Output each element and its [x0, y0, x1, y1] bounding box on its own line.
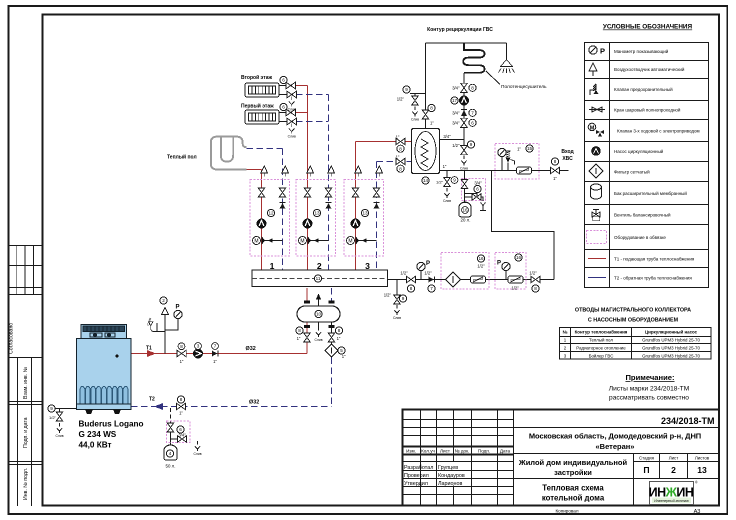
svg-text:3/4": 3/4": [178, 433, 186, 438]
svg-text:1": 1": [517, 147, 521, 152]
svg-text:4: 4: [169, 451, 172, 456]
svg-text:1/2": 1/2": [436, 180, 444, 185]
svg-text:1": 1": [396, 155, 400, 160]
svg-text:6: 6: [476, 187, 479, 192]
svg-text:Подп. и дата: Подп. и дата: [23, 417, 29, 448]
svg-text:Московская область, Домодедовс: Московская область, Домодедовский р-н, Д…: [529, 432, 701, 441]
svg-text:G 234 WS: G 234 WS: [79, 430, 117, 439]
svg-text:№ док.: № док.: [455, 448, 470, 453]
svg-text:9: 9: [405, 87, 408, 92]
svg-text:13: 13: [697, 465, 707, 475]
svg-text:1/2": 1/2": [424, 271, 432, 276]
svg-text:Вентиль балансировочный: Вентиль балансировочный: [614, 212, 671, 218]
svg-text:Дата: Дата: [500, 448, 511, 453]
svg-text:Второй этаж: Второй этаж: [241, 74, 272, 81]
svg-text:8: 8: [399, 146, 402, 151]
svg-text:Воздухоотводчик автоматический: Воздухоотводчик автоматический: [614, 66, 685, 72]
svg-text:P: P: [426, 261, 430, 267]
svg-text:6: 6: [282, 105, 285, 110]
svg-text:9: 9: [470, 142, 473, 147]
svg-text:Согласовано: Согласовано: [9, 323, 15, 354]
svg-text:9: 9: [453, 178, 456, 183]
svg-text:Примечание:: Примечание:: [625, 373, 674, 382]
svg-text:1": 1": [553, 176, 557, 181]
svg-text:7: 7: [471, 111, 474, 116]
svg-text:Клапан 3-х ходовой с электропр: Клапан 3-х ходовой с электроприводом: [617, 128, 700, 134]
svg-text:2: 2: [162, 298, 165, 303]
svg-text:Buderus Logano: Buderus Logano: [79, 420, 144, 429]
svg-text:П: П: [643, 465, 649, 475]
svg-text:Циркуляционный насос: Циркуляционный насос: [645, 330, 698, 335]
svg-text:3/4": 3/4": [443, 134, 451, 139]
svg-text:Оборудование в обвязке: Оборудование в обвязке: [614, 235, 666, 240]
svg-text:Вход: Вход: [561, 149, 574, 155]
svg-text:Проверил: Проверил: [404, 473, 429, 479]
svg-text:13: 13: [314, 211, 320, 216]
svg-text:2: 2: [317, 261, 322, 271]
svg-text:Подп.: Подп.: [478, 448, 490, 453]
svg-text:1/2": 1/2": [477, 264, 485, 269]
svg-text:6: 6: [282, 78, 285, 83]
svg-text:10: 10: [316, 312, 322, 317]
svg-text:13: 13: [362, 211, 368, 216]
svg-text:Кран шаровый полнопроходной: Кран шаровый полнопроходной: [614, 107, 681, 113]
svg-text:8: 8: [471, 86, 474, 91]
svg-text:Полотенцесушитель: Полотенцесушитель: [501, 84, 547, 90]
svg-text:5: 5: [340, 348, 343, 353]
svg-text:Теплый пол: Теплый пол: [589, 338, 613, 343]
svg-text:1/2": 1/2": [452, 143, 460, 148]
svg-text:Утвердил: Утвердил: [404, 481, 428, 487]
svg-text:Листы марки 234/2018-ТМ: Листы марки 234/2018-ТМ: [609, 386, 689, 393]
svg-text:3/4": 3/4": [452, 111, 460, 116]
svg-text:6: 6: [471, 121, 474, 126]
svg-text:рассматривать совместно: рассматривать совместно: [609, 395, 689, 402]
svg-text:1: 1: [270, 261, 275, 271]
svg-text:Листов: Листов: [695, 456, 710, 461]
svg-text:Бойлер ГВС: Бойлер ГВС: [589, 353, 614, 358]
svg-text:Кол.уч: Кол.уч: [421, 448, 435, 453]
svg-text:3/4": 3/4": [452, 86, 460, 91]
svg-text:Т1 - подающая труба теплоснабж: Т1 - подающая труба теплоснабжения: [614, 257, 695, 262]
svg-text:ХВС: ХВС: [562, 156, 573, 162]
svg-text:1/2": 1/2": [49, 415, 57, 420]
svg-text:8: 8: [399, 166, 402, 171]
svg-text:1": 1": [396, 135, 400, 140]
svg-text:3/4": 3/4": [452, 121, 460, 126]
svg-text:№: №: [563, 330, 568, 335]
svg-text:Насос циркуляционный: Насос циркуляционный: [614, 148, 664, 154]
svg-text:1": 1": [430, 121, 434, 126]
svg-text:7: 7: [430, 286, 433, 291]
svg-text:1": 1": [337, 336, 341, 341]
svg-text:Фильтр сетчатый: Фильтр сетчатый: [614, 169, 650, 175]
svg-text:Контур рециркуляции ГВС: Контур рециркуляции ГВС: [427, 27, 493, 33]
svg-text:1": 1": [443, 164, 447, 169]
svg-text:Клапан предохранительный: Клапан предохранительный: [614, 86, 673, 92]
svg-text:Жилой дом индивидуальной: Жилой дом индивидуальной: [518, 458, 628, 467]
svg-text:2: 2: [671, 465, 676, 475]
svg-text:Манометр показывающий: Манометр показывающий: [614, 48, 669, 54]
svg-text:16: 16: [462, 208, 468, 213]
svg-text:Групцев: Групцев: [438, 465, 458, 471]
svg-text:12: 12: [268, 211, 274, 216]
svg-text:«Ветеран»: «Ветеран»: [596, 442, 635, 451]
svg-text:1/2": 1/2": [397, 97, 405, 102]
svg-text:Лист: Лист: [669, 456, 679, 461]
svg-text:Кондауров: Кондауров: [438, 473, 465, 479]
svg-text:3/4": 3/4": [474, 181, 482, 186]
svg-text:Бак расширительный мембранный: Бак расширительный мембранный: [614, 190, 687, 196]
svg-text:6: 6: [179, 427, 182, 432]
svg-text:7: 7: [214, 344, 217, 349]
svg-text:УСЛОВНЫЕ ОБОЗНАЧЕНИЯ: УСЛОВНЫЕ ОБОЗНАЧЕНИЯ: [603, 24, 693, 31]
svg-text:Тепловая схема: Тепловая схема: [542, 484, 604, 493]
svg-text:8: 8: [298, 328, 301, 333]
svg-text:1": 1": [179, 411, 183, 416]
svg-text:застройки: застройки: [554, 468, 592, 477]
svg-text:17: 17: [452, 98, 458, 103]
svg-text:Т2: Т2: [149, 397, 155, 403]
svg-text:®: ®: [695, 481, 698, 485]
svg-text:3: 3: [365, 261, 370, 271]
svg-text:Радиаторное отопление: Радиаторное отопление: [576, 346, 626, 351]
svg-text:Grundfos UPM3 Hybrid 25-70: Grundfos UPM3 Hybrid 25-70: [642, 346, 700, 351]
svg-text:1/2": 1/2": [384, 293, 392, 298]
svg-text:15: 15: [527, 146, 533, 151]
svg-text:Изм.: Изм.: [406, 448, 416, 453]
svg-text:Т2 - обратная труба теплоснабж: Т2 - обратная труба теплоснабжения: [614, 276, 692, 281]
svg-text:8: 8: [554, 159, 557, 164]
svg-text:Теплый пол: Теплый пол: [167, 154, 197, 161]
svg-text:14: 14: [423, 178, 429, 183]
svg-text:20 л.: 20 л.: [461, 218, 471, 223]
svg-text:1": 1": [213, 359, 217, 364]
svg-text:16: 16: [478, 256, 484, 261]
svg-text:44,0 КВт: 44,0 КВт: [79, 440, 112, 449]
svg-text:Разработал: Разработал: [404, 465, 433, 471]
svg-text:9: 9: [402, 296, 405, 301]
svg-text:M: M: [590, 126, 595, 132]
svg-text:Grundfos UPM3 Hybrid 25-70: Grundfos UPM3 Hybrid 25-70: [642, 353, 700, 358]
svg-text:8: 8: [534, 286, 537, 291]
svg-text:1/2": 1/2": [511, 286, 519, 291]
svg-text:ОТВОДЫ МАГИСТРАЛЬНОГО КОЛЛЕКТО: ОТВОДЫ МАГИСТРАЛЬНОГО КОЛЛЕКТОРА: [575, 308, 691, 314]
svg-text:Ларионов: Ларионов: [438, 481, 463, 487]
svg-text:Первый этаж: Первый этаж: [241, 103, 274, 110]
svg-text:Т1: Т1: [146, 346, 152, 352]
svg-text:9: 9: [50, 406, 53, 411]
svg-text:1": 1": [342, 354, 346, 359]
svg-text:А3: А3: [694, 509, 701, 515]
svg-text:1/2": 1/2": [529, 271, 537, 276]
svg-text:С НАСОСНЫМ ОБОРУДОВАНИЕМ: С НАСОСНЫМ ОБОРУДОВАНИЕМ: [588, 318, 679, 324]
svg-text:1/2": 1/2": [400, 271, 408, 276]
svg-text:Лист: Лист: [440, 448, 451, 453]
svg-text:8: 8: [410, 286, 413, 291]
svg-text:Инв. № подл.: Инв. № подл.: [23, 468, 29, 500]
svg-text:3: 3: [197, 344, 200, 349]
svg-text:P: P: [176, 305, 180, 311]
svg-text:11: 11: [316, 276, 321, 281]
svg-text:Grundfos UPM3 Hybrid 25-70: Grundfos UPM3 Hybrid 25-70: [642, 338, 700, 343]
svg-text:8: 8: [338, 328, 341, 333]
svg-text:Контур теплоснабжения: Контур теплоснабжения: [575, 330, 628, 335]
svg-text:8: 8: [180, 344, 183, 349]
svg-text:8: 8: [180, 397, 183, 402]
svg-text:Инженерный монтаж: Инженерный монтаж: [654, 499, 689, 503]
svg-text:Ø32: Ø32: [249, 400, 259, 406]
svg-text:P: P: [497, 261, 501, 267]
svg-text:P: P: [600, 47, 605, 56]
svg-text:1": 1": [297, 336, 301, 341]
svg-text:котельной дома: котельной дома: [542, 494, 605, 503]
svg-text:8: 8: [430, 106, 433, 111]
svg-text:Ø32: Ø32: [246, 346, 256, 352]
svg-text:50 л.: 50 л.: [166, 464, 176, 469]
svg-text:Стадия: Стадия: [639, 456, 655, 461]
svg-text:16: 16: [516, 255, 522, 260]
svg-text:Копировал: Копировал: [555, 509, 578, 514]
svg-text:Взам. инв. №: Взам. инв. №: [23, 366, 29, 399]
svg-text:ИНЖИН: ИНЖИН: [649, 486, 694, 500]
svg-text:1": 1": [180, 359, 184, 364]
svg-text:234/2018-ТМ: 234/2018-ТМ: [661, 416, 715, 426]
